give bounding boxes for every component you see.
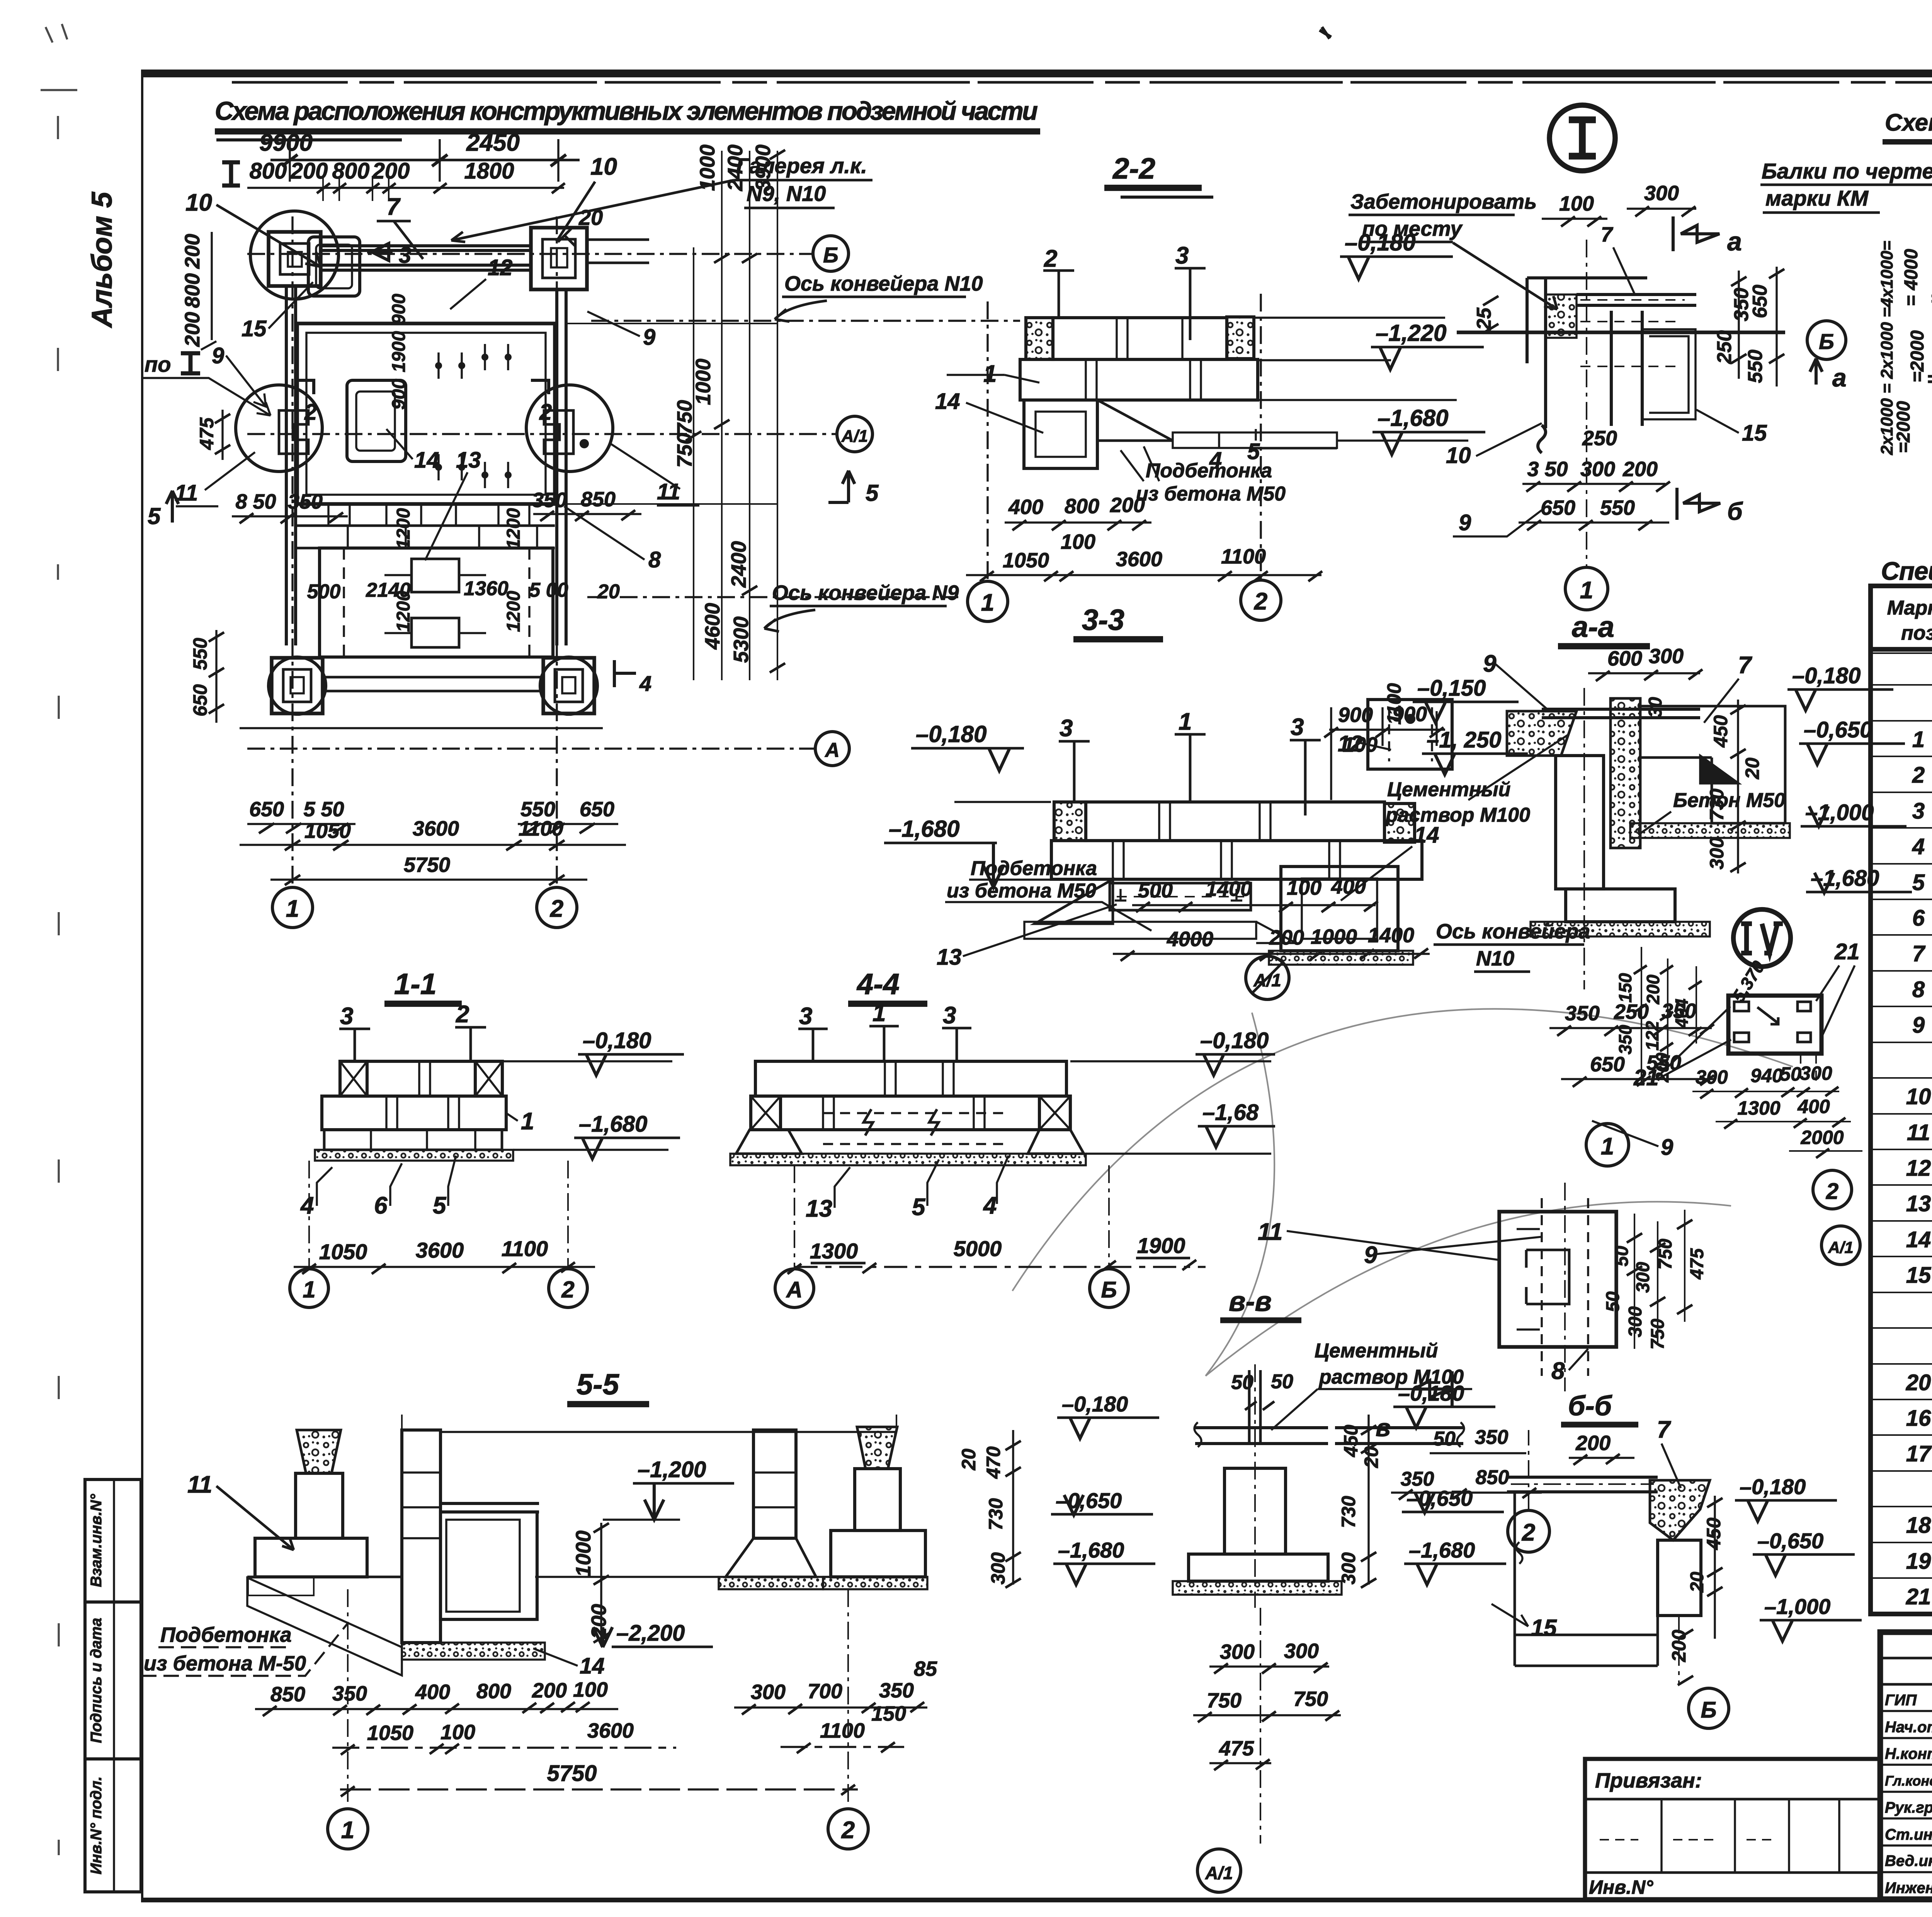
svg-text:Подбетонка: Подбетонка — [971, 857, 1097, 880]
section 5-5 right columns — [535, 1427, 927, 1589]
svg-text:450: 450 — [1340, 1425, 1362, 1457]
svg-text:А/1: А/1 — [1828, 1238, 1853, 1256]
svg-text:5: 5 — [866, 480, 879, 506]
svg-text:3: 3 — [943, 1002, 956, 1029]
svg-text:5: 5 — [912, 1194, 926, 1221]
svg-text:150: 150 — [1615, 973, 1635, 1003]
circled detail I mark — [1549, 105, 1615, 171]
svg-text:а-а: а-а — [1572, 611, 1614, 644]
svg-text:4: 4 — [983, 1192, 997, 1219]
svg-text:350: 350 — [1615, 1025, 1635, 1054]
svg-text:20: 20 — [1361, 1446, 1382, 1468]
section cut 4 flag bottom — [614, 660, 651, 696]
svg-text:11: 11 — [657, 479, 680, 504]
section a-a bottom dims — [1549, 999, 1716, 1087]
svg-text:–0,650: –0,650 — [1804, 717, 1872, 742]
svg-text:100: 100 — [1559, 192, 1594, 215]
svg-text:–0,180: –0,180 — [916, 721, 987, 747]
svg-text:по месту: по месту — [1362, 217, 1463, 240]
section 3-3 wedge and slab — [1024, 879, 1296, 943]
section b-b elevations — [1668, 1474, 1862, 1685]
svg-text:Подпись и дата: Подпись и дата — [88, 1618, 105, 1743]
svg-text:Балки по чертежам: Балки по чертежам — [1762, 159, 1932, 183]
section a-a right rotated dims — [1706, 700, 1763, 873]
svg-text:2: 2 — [456, 1001, 469, 1028]
section 5-5 pit walls — [402, 1430, 545, 1660]
detail I cut mark b bottom — [1677, 488, 1743, 525]
svg-text:500: 500 — [1138, 879, 1173, 902]
svg-text:5: 5 — [433, 1192, 447, 1219]
section 5-5 lean concrete slope — [247, 1578, 402, 1675]
detail II rotated dims — [1603, 1210, 1708, 1350]
section a-a drawing — [1507, 688, 1790, 989]
svg-text:а: а — [1832, 363, 1847, 392]
svg-text:поз: поз — [1901, 622, 1932, 644]
section 3-3 axis note — [1434, 920, 1590, 972]
svg-text:5: 5 — [1912, 870, 1925, 895]
grid axis row A/1 — [247, 416, 872, 452]
svg-text:N9, N10: N9, N10 — [747, 181, 826, 206]
svg-text:1: 1 — [1580, 577, 1593, 604]
section 3-3 right pit — [1269, 867, 1413, 965]
detail IV rotated dims — [1615, 947, 1769, 1083]
specification table title — [1881, 557, 1932, 585]
svg-text:2: 2 — [1044, 245, 1057, 272]
plan mid dims 850 350 — [232, 488, 641, 523]
svg-text:800: 800 — [181, 273, 204, 308]
svg-text:Альбом 5: Альбом 5 — [86, 191, 118, 329]
section v-v title — [1220, 1286, 1301, 1320]
section v-v grid bubble A/1 — [1197, 1608, 1260, 1892]
section 5-5 bottom dims row3 — [340, 1761, 858, 1796]
svg-text:300: 300 — [751, 1680, 786, 1704]
svg-text:Подбетонка: Подбетонка — [1146, 460, 1272, 482]
section a-a title — [1558, 611, 1650, 646]
svg-text:20: 20 — [958, 1449, 980, 1471]
svg-text:Рук.гр.: Рук.гр. — [1885, 1799, 1932, 1816]
svg-text:4600: 4600 — [701, 603, 724, 650]
svg-text:800: 800 — [476, 1680, 511, 1703]
svg-text:200: 200 — [1622, 458, 1658, 481]
main title underground layout — [215, 97, 1040, 140]
svg-text:Б: Б — [1701, 1697, 1716, 1723]
svg-text:300: 300 — [1633, 1262, 1653, 1293]
section 1-1 leaders 3 2 — [339, 1001, 486, 1061]
svg-text:2: 2 — [1522, 1519, 1535, 1546]
plan interior dims row — [307, 577, 620, 603]
svg-text:100: 100 — [1287, 876, 1321, 899]
svg-text:730: 730 — [1338, 1496, 1359, 1528]
svg-text:10: 10 — [590, 153, 617, 180]
svg-text:750: 750 — [1293, 1687, 1328, 1711]
svg-text:900: 900 — [389, 294, 409, 325]
section 3-3 floating block pos12 — [1368, 700, 1452, 769]
svg-text:200: 200 — [372, 158, 410, 184]
plan: bottom-left column node — [269, 657, 326, 714]
section a-a elevations left — [1383, 676, 1528, 775]
section 1-1 label 1 — [506, 1108, 534, 1135]
svg-text:1100: 1100 — [1383, 683, 1405, 725]
svg-text:Бетон М50: Бетон М50 — [1673, 789, 1785, 812]
svg-text:б: б — [1727, 497, 1743, 525]
svg-text:940: 940 — [1750, 1065, 1783, 1086]
section a-a top dims — [1588, 645, 1702, 718]
svg-text:650: 650 — [580, 798, 614, 821]
svg-text:3: 3 — [799, 1003, 812, 1030]
svg-text:1400: 1400 — [1206, 877, 1252, 901]
svg-text:15: 15 — [1742, 421, 1767, 446]
svg-text:300: 300 — [1649, 645, 1684, 668]
svg-text:1200: 1200 — [393, 508, 414, 549]
svg-text:850: 850 — [1476, 1466, 1509, 1489]
section 3-3 wall row2 — [1051, 841, 1422, 879]
svg-text:150: 150 — [871, 1702, 906, 1725]
section 3-3 title — [1073, 604, 1163, 639]
svg-text:2: 2 — [1912, 763, 1925, 788]
svg-text:13: 13 — [456, 448, 481, 473]
svg-text:= 4000: = 4000 — [1901, 249, 1922, 306]
svg-text:из бетона М50: из бетона М50 — [947, 880, 1096, 902]
svg-text:Ось конвейера N9: Ось конвейера N9 — [772, 581, 959, 604]
svg-text:5: 5 — [148, 503, 161, 529]
svg-text:50: 50 — [1271, 1371, 1293, 1393]
svg-text:1050: 1050 — [319, 1239, 367, 1264]
svg-text:1800: 1800 — [464, 158, 514, 184]
section 3-3 bottom dims — [1113, 875, 1430, 961]
svg-text:300: 300 — [1706, 837, 1728, 870]
svg-text:14: 14 — [935, 389, 960, 414]
svg-text:–1,200: –1,200 — [638, 1457, 706, 1482]
section 4-4 title — [848, 968, 927, 1004]
svg-text:14: 14 — [414, 448, 439, 473]
svg-text:1000: 1000 — [692, 359, 715, 405]
privyazan box — [1585, 1759, 1880, 1899]
svg-text:–1, 250: –1, 250 — [1427, 727, 1502, 752]
svg-text:12: 12 — [1906, 1156, 1931, 1181]
svg-text:1100: 1100 — [820, 1719, 865, 1742]
svg-text:20: 20 — [1687, 1571, 1708, 1593]
svg-text:5750: 5750 — [547, 1761, 597, 1786]
svg-text:350: 350 — [1475, 1426, 1509, 1449]
svg-text:=2000: =2000 — [1893, 401, 1914, 453]
plan: bottom beam — [240, 677, 603, 728]
svg-text:300: 300 — [1220, 1640, 1255, 1663]
conveyor N10 axis note — [591, 272, 1020, 322]
section v-v rotated dims — [958, 1415, 1382, 1588]
svg-text:из бетона М50: из бетона М50 — [1136, 483, 1286, 505]
detail I labels 15 10 9 — [1446, 410, 1767, 536]
svg-text:–0,180: –0,180 — [1062, 1392, 1128, 1416]
svg-text:7: 7 — [1657, 1416, 1671, 1443]
svg-text:Спецификация к схемам располож: Спецификация к схемам расположения конст… — [1881, 557, 1932, 585]
svg-text:А/1: А/1 — [841, 427, 868, 446]
leader label 8 right — [564, 506, 661, 572]
svg-text:–0,150: –0,150 — [1417, 676, 1486, 701]
lower-left margin boxes — [85, 1479, 141, 1892]
svg-text:–1,68: –1,68 — [1202, 1100, 1259, 1125]
svg-text:4-4: 4-4 — [856, 968, 900, 1001]
svg-text:Н.контр.: Н.контр. — [1885, 1745, 1932, 1762]
plan: left wall — [286, 286, 296, 645]
plan: pit pos15 top — [308, 237, 360, 296]
svg-text:650: 650 — [189, 684, 211, 717]
svg-text:200: 200 — [1643, 974, 1663, 1004]
grid bubble 2 near v-v — [1508, 1430, 1549, 1552]
detail I top dims — [1542, 182, 1696, 294]
section b-b label 15 — [1492, 1604, 1557, 1641]
table body rows — [1906, 657, 1932, 1609]
grid bubble 1 — [272, 887, 313, 928]
section b-b grid bubble B — [1679, 1616, 1729, 1728]
svg-text:Б: Б — [1101, 1277, 1117, 1302]
svg-text:200: 200 — [1652, 1052, 1672, 1083]
detail I grid bubble 1 — [1565, 567, 1608, 610]
plan: top-left column node — [269, 232, 321, 286]
section 5-5 title — [567, 1368, 649, 1404]
section 4-4 bottom labels 13 5 4 — [806, 1156, 1009, 1222]
svg-text:400: 400 — [1008, 495, 1043, 519]
section a-a elevations right — [1787, 663, 1912, 893]
svg-text:50: 50 — [1612, 1246, 1632, 1267]
svg-text:350: 350 — [332, 1682, 367, 1705]
roof plan left rotated dims — [1878, 216, 1932, 479]
svg-text:200: 200 — [1269, 926, 1304, 949]
svg-text:1300: 1300 — [810, 1239, 858, 1263]
svg-text:600: 600 — [1607, 647, 1642, 670]
svg-text:9: 9 — [1912, 1013, 1925, 1038]
svg-text:N10: N10 — [1476, 947, 1514, 970]
svg-text:9: 9 — [1459, 510, 1471, 535]
svg-text:6: 6 — [1912, 906, 1925, 931]
svg-text:3: 3 — [1060, 715, 1073, 742]
svg-text:2: 2 — [841, 1817, 855, 1844]
section 4-4 block rows — [730, 1061, 1086, 1165]
svg-text:550: 550 — [189, 638, 211, 670]
svg-text:Ст.инж.: Ст.инж. — [1885, 1826, 1932, 1843]
svg-text:5 50: 5 50 — [303, 798, 344, 821]
svg-text:3: 3 — [1912, 798, 1925, 824]
svg-text:750: 750 — [1207, 1689, 1242, 1712]
svg-text:9: 9 — [643, 325, 655, 350]
label po I left — [143, 352, 270, 415]
svg-text:100: 100 — [440, 1721, 475, 1744]
svg-text:18: 18 — [1906, 1513, 1931, 1538]
svg-text:2: 2 — [550, 896, 563, 922]
section b-b title — [1561, 1391, 1638, 1425]
svg-text:Б: Б — [823, 243, 838, 267]
svg-text:450: 450 — [1710, 715, 1731, 748]
svg-text:3: 3 — [340, 1003, 353, 1030]
svg-text:1900: 1900 — [1137, 1233, 1185, 1258]
svg-text:10: 10 — [1446, 443, 1471, 468]
detail I grid B bubble — [1807, 321, 1847, 392]
svg-text:475: 475 — [1687, 1248, 1708, 1280]
svg-text:450: 450 — [1703, 1517, 1725, 1550]
svg-text:2: 2 — [561, 1277, 574, 1302]
svg-text:1: 1 — [1912, 727, 1925, 752]
svg-text:1100: 1100 — [502, 1236, 548, 1261]
beams note (balki po chertezham marki KM) — [1760, 159, 1932, 406]
svg-text:3600: 3600 — [587, 1719, 634, 1742]
detail IV labels 21 — [1633, 939, 1860, 1090]
svg-text:15: 15 — [241, 316, 267, 341]
svg-text:–1,680: –1,680 — [579, 1112, 647, 1137]
plan: top-right column node — [531, 228, 649, 289]
section 1-1 bottom labels 4 6 5 — [300, 1156, 456, 1219]
svg-text:–1,680: –1,680 — [1058, 1538, 1124, 1562]
detail circle C1 — [250, 211, 338, 299]
svg-text:–1,680: –1,680 — [1409, 1538, 1475, 1562]
svg-text:50: 50 — [1603, 1291, 1623, 1312]
svg-text:–1,680: –1,680 — [889, 816, 960, 842]
svg-text:–0,180: –0,180 — [1792, 663, 1861, 688]
svg-text:2-2: 2-2 — [1112, 152, 1155, 185]
svg-text:650: 650 — [1749, 285, 1771, 318]
leader label 12 — [450, 255, 513, 309]
svg-text:Б: Б — [1819, 329, 1834, 354]
svg-text:16: 16 — [1906, 1406, 1931, 1431]
svg-text:850: 850 — [270, 1683, 305, 1706]
svg-text:Инжен.: Инжен. — [1885, 1880, 1932, 1897]
section 2-2 grid lines and bubbles — [968, 294, 1281, 621]
svg-text:Привязан:: Привязан: — [1595, 1769, 1702, 1792]
svg-text:4000: 4000 — [1167, 928, 1213, 951]
section 5-5 label 14 — [533, 1648, 605, 1679]
svg-text:85: 85 — [914, 1657, 937, 1680]
leader label 20 right top — [558, 205, 603, 246]
section cut 2 marks — [296, 380, 552, 425]
svg-text:850: 850 — [581, 488, 616, 511]
svg-text:1: 1 — [1601, 1133, 1614, 1160]
grid axis row B — [247, 236, 849, 271]
fold marks left edge — [41, 24, 77, 1855]
svg-text:1400: 1400 — [1368, 924, 1414, 947]
svg-text:3 50: 3 50 — [1527, 458, 1568, 481]
svg-text:7: 7 — [1601, 223, 1614, 246]
svg-text:650: 650 — [249, 798, 284, 821]
section 1-1 elevations — [502, 1028, 684, 1159]
plan: right wall — [557, 289, 566, 645]
svg-text:7: 7 — [1912, 941, 1926, 966]
section 5-5 left column cup — [247, 1430, 402, 1577]
svg-text:1: 1 — [981, 589, 994, 616]
plan bottom dim chains — [240, 798, 626, 885]
svg-text:19: 19 — [1906, 1549, 1931, 1574]
svg-text:3600: 3600 — [416, 1238, 464, 1262]
svg-text:9: 9 — [1364, 1242, 1378, 1268]
svg-text:в: в — [1376, 1414, 1391, 1442]
svg-text:1100: 1100 — [519, 817, 563, 840]
svg-text:=2000: =2000 — [1907, 330, 1928, 382]
svg-text:13: 13 — [806, 1195, 832, 1222]
detail I drawing — [1457, 240, 1785, 568]
svg-text:Схема расположения плит покрыт: Схема расположения плит покрытия — [1885, 109, 1932, 136]
svg-text:Схема расположения конструктив: Схема расположения конструктивных элемен… — [215, 97, 1038, 126]
grid axis vertical 2 — [556, 216, 558, 885]
svg-text:2: 2 — [1826, 1179, 1838, 1204]
leader labels 11 and 9 near detail II — [1258, 1219, 1542, 1268]
svg-text:3600: 3600 — [1116, 548, 1162, 571]
svg-text:400: 400 — [415, 1680, 450, 1704]
svg-text:–0,180: –0,180 — [583, 1028, 651, 1053]
svg-text:900: 900 — [389, 379, 409, 410]
svg-text:1050: 1050 — [304, 819, 351, 843]
plan: top foundation beam — [321, 246, 531, 270]
personnel rows — [1885, 1690, 1932, 1897]
svg-text:9: 9 — [1483, 650, 1497, 677]
svg-text:–1,680: –1,680 — [1378, 405, 1449, 431]
svg-text:9900: 9900 — [259, 129, 313, 156]
svg-text:300: 300 — [1338, 1552, 1359, 1585]
detail II grid bubble A/1 — [1821, 1226, 1860, 1265]
svg-text:из бетона М-50: из бетона М-50 — [144, 1652, 306, 1675]
svg-text:13: 13 — [937, 945, 962, 970]
svg-text:200: 200 — [1575, 1432, 1611, 1455]
svg-text:8: 8 — [1912, 977, 1925, 1002]
section 4-4 dims — [787, 1233, 1206, 1274]
svg-text:464: 464 — [1672, 999, 1692, 1029]
svg-text:9: 9 — [212, 343, 224, 368]
svg-text:300: 300 — [1644, 182, 1679, 205]
section 3-3 wall row1 — [1054, 802, 1415, 842]
detail IV bottom dims — [1692, 1062, 1862, 1158]
svg-text:Галерея л.к.: Галерея л.к. — [736, 153, 867, 178]
svg-text:Цементный: Цементный — [1315, 1340, 1438, 1362]
svg-text:= 200: = 200 — [1930, 288, 1932, 310]
svg-text:2000: 2000 — [1800, 1127, 1844, 1148]
svg-text:100: 100 — [1061, 530, 1095, 553]
svg-text:Цементный: Цементный — [1387, 778, 1510, 801]
grid bubble 2 — [537, 887, 577, 928]
svg-text:11: 11 — [1907, 1120, 1930, 1145]
section 3-3 elevation -0,180 — [911, 721, 1051, 802]
svg-text:5750: 5750 — [404, 853, 450, 877]
svg-text:1-1: 1-1 — [394, 968, 437, 1001]
svg-text:300: 300 — [1284, 1639, 1319, 1663]
section v-v 50 50 dims — [1231, 1371, 1293, 1410]
svg-text:21: 21 — [1834, 939, 1860, 964]
svg-text:300: 300 — [987, 1552, 1009, 1585]
svg-text:2400: 2400 — [727, 541, 750, 588]
svg-text:1000: 1000 — [572, 1531, 595, 1577]
svg-text:раствор М100: раствор М100 — [1385, 804, 1530, 826]
svg-text:7: 7 — [1738, 652, 1752, 679]
section 3-3 podbetonka beam — [1110, 883, 1251, 910]
section 2-2 bottom dims — [966, 494, 1322, 581]
svg-text:550: 550 — [1600, 496, 1635, 519]
svg-text:750: 750 — [673, 433, 696, 468]
svg-text:3-3: 3-3 — [1082, 604, 1124, 637]
grid axis vertical 1 — [291, 216, 293, 885]
svg-text:1: 1 — [1179, 708, 1192, 735]
svg-text:15: 15 — [1906, 1263, 1931, 1288]
svg-text:200: 200 — [290, 158, 328, 184]
svg-text:9: 9 — [1661, 1135, 1673, 1160]
section 3-3 dims 900 900 100 — [1324, 703, 1445, 800]
section b-b dims 200 and label 7 — [1569, 1416, 1681, 1488]
svg-text:300: 300 — [1625, 1306, 1646, 1337]
svg-text:100: 100 — [573, 1678, 608, 1701]
svg-text:Гл.констр.: Гл.констр. — [1885, 1773, 1932, 1789]
section cut 3 flag — [367, 243, 411, 268]
svg-text:8 50: 8 50 — [235, 490, 276, 513]
svg-text:800: 800 — [1065, 495, 1099, 518]
section 5-5 bottom dims row1 — [255, 1657, 937, 1716]
vertical dim chain right of plan — [566, 145, 785, 680]
svg-text:650: 650 — [1541, 496, 1575, 519]
svg-text:5-5: 5-5 — [577, 1368, 620, 1401]
plan: main chamber — [297, 323, 555, 504]
